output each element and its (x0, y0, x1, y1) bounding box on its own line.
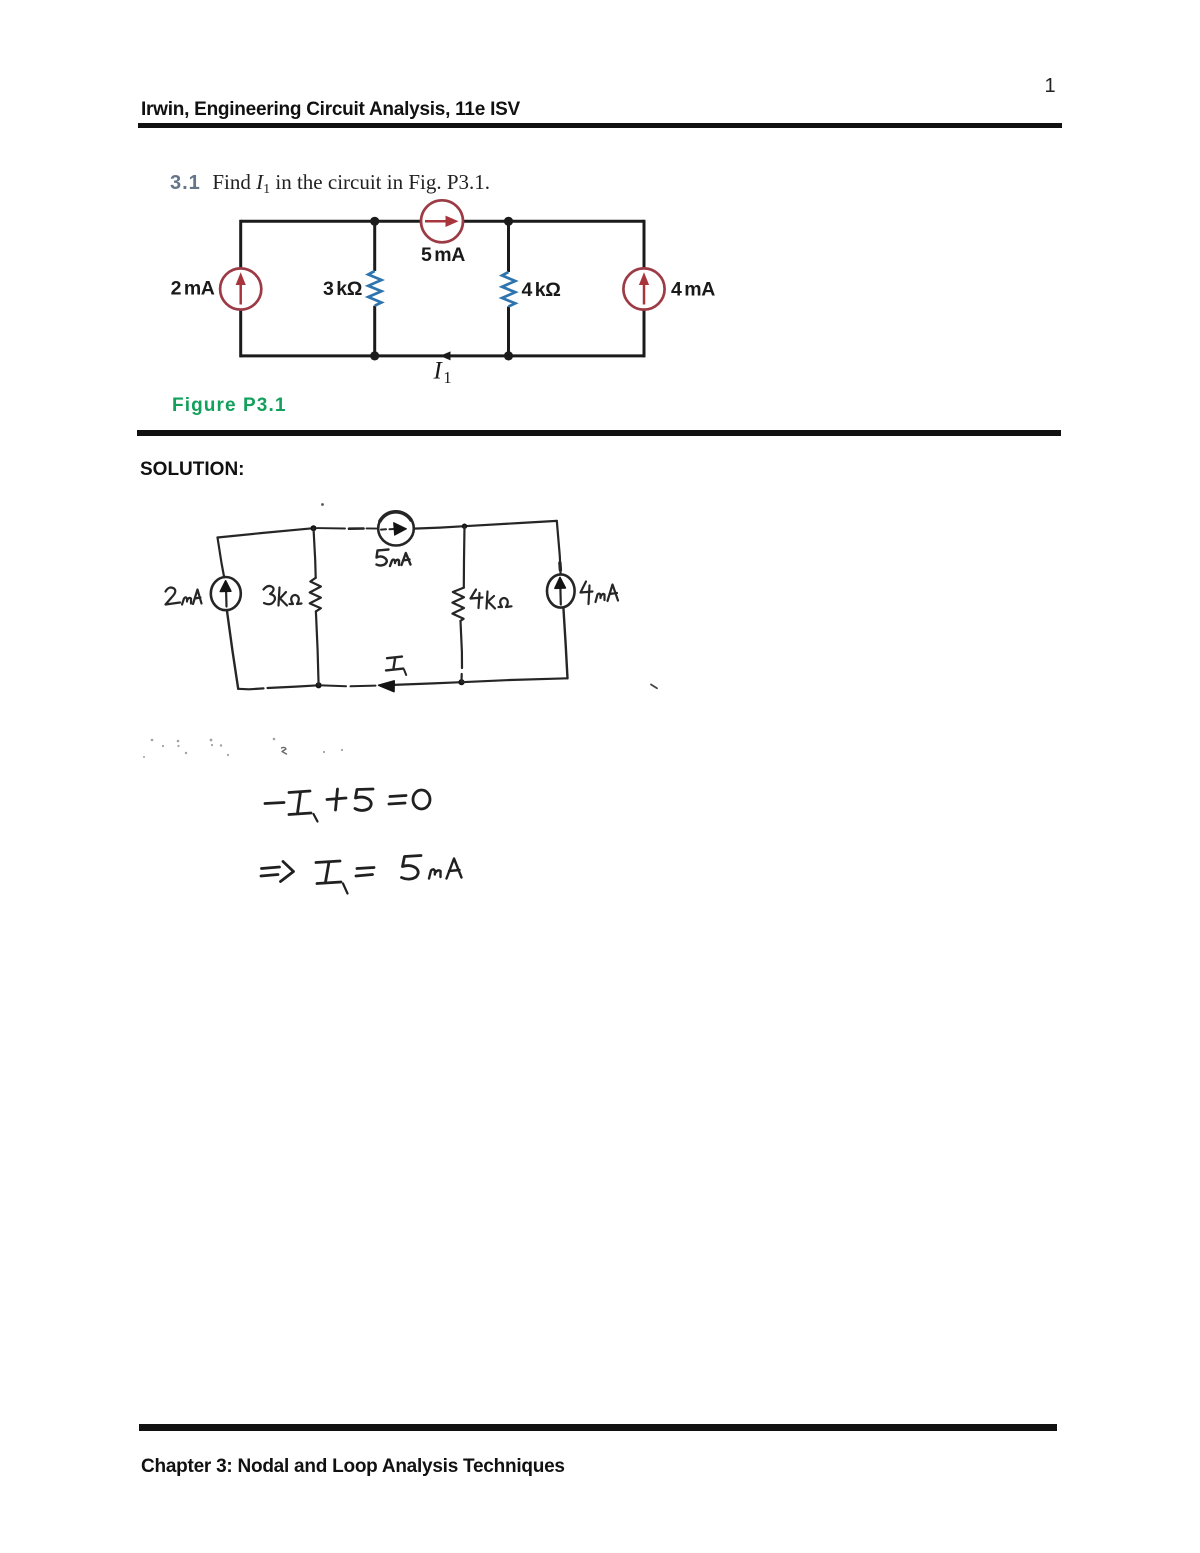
HANDWRITTEN EQUATIONS (140, 725, 680, 905)
node bottom of 3k (370, 351, 379, 360)
node hand top of 4k (462, 524, 467, 529)
wire left lower (239, 309, 242, 357)
wire top-right segment (463, 220, 644, 223)
current source hand 2mA (211, 577, 241, 610)
wire hand top-right segment (465, 521, 557, 526)
label hand 3kOhm (264, 586, 302, 606)
label hand 4mA (581, 582, 619, 605)
wire hand right lower (563, 608, 567, 679)
header rule (138, 123, 1062, 128)
pencil speckles (143, 738, 343, 758)
label hand 4kOhm (471, 590, 512, 609)
svg-text:4 mA: 4 mA (671, 279, 715, 301)
current arrow I1 on bottom wire (440, 351, 451, 360)
page number 1 (1040, 75, 1060, 98)
wire 4k branch lower (507, 307, 510, 356)
wire hand top right of source (414, 526, 465, 528)
label 3 kOhm (323, 278, 362, 300)
label hand 5mA (377, 550, 411, 567)
wire 3k branch upper (373, 221, 376, 271)
node bottom of 4k (504, 351, 513, 360)
wire hand 3k branch upper (314, 528, 316, 578)
handwritten equation -I1 + 5 = 0 (265, 789, 430, 822)
label hand I1 (386, 657, 406, 675)
resistor 3 kOhm (368, 271, 381, 306)
label 4 kOhm (522, 279, 561, 301)
wire hand left upper (218, 538, 225, 578)
wire hand left lower (227, 610, 238, 689)
footer rule (139, 1424, 1057, 1431)
current source hand 5mA (378, 512, 414, 546)
middle rule (137, 430, 1061, 436)
svg-text:I1: I1 (433, 358, 452, 388)
label 4 mA (671, 279, 715, 301)
node hand top of 3k (311, 525, 317, 531)
svg-text:3 kΩ: 3 kΩ (323, 278, 362, 300)
wire right lower (643, 309, 646, 357)
PRINTED CIRCUIT FIGURE (150, 190, 750, 390)
problem statement (170, 170, 490, 195)
wire hand right upper (557, 521, 561, 574)
resistor 4 kOhm (502, 272, 515, 307)
wire 3k branch lower (373, 306, 376, 356)
svg-text:2 mA: 2 mA (171, 278, 215, 300)
wire hand 4k branch upper (463, 526, 466, 587)
HAND-DRAWN CIRCUIT (140, 495, 680, 705)
wire hand bottom left segment (238, 685, 318, 689)
label 2 mA (171, 278, 215, 300)
stray mark above circuit (321, 503, 324, 506)
stray tick bottom right (651, 685, 657, 689)
header title (141, 99, 520, 121)
footer text (141, 1456, 565, 1478)
resistor hand 3kOhm (310, 578, 321, 612)
wire 4k branch upper (507, 221, 510, 272)
resistor hand 4kOhm (452, 588, 464, 621)
current source 4 mA (623, 268, 664, 309)
current arrow hand I1 (379, 681, 395, 692)
wire hand bottom middle with I1 arrow (322, 682, 462, 686)
wire hand top dashes to 5mA source (317, 527, 379, 530)
wire right upper (643, 220, 646, 269)
wire hand top-left segment (218, 528, 314, 537)
wire hand bottom right segment (462, 678, 568, 682)
wire bottom (241, 354, 644, 357)
wire hand 3k branch lower (316, 611, 319, 685)
node hand bottom of 4k (458, 679, 464, 685)
current source hand 4mA (547, 574, 575, 607)
handwritten equation => I1 = 5 mA (261, 856, 462, 894)
current source 2 mA (220, 268, 261, 309)
label hand 2mA (166, 588, 202, 605)
node hand bottom of 3k (316, 682, 322, 688)
wire left upper (239, 220, 242, 269)
svg-text:5 mA: 5 mA (421, 244, 465, 266)
wire top-left segment (241, 220, 421, 223)
label 5 mA (421, 244, 465, 266)
wire hand 4k branch lower (461, 621, 463, 682)
svg-text:4 kΩ: 4 kΩ (522, 279, 561, 301)
node top of 3k (370, 217, 379, 226)
node top of 4k (504, 217, 513, 226)
solution heading (140, 459, 245, 481)
label I1 (433, 358, 452, 388)
figure caption (172, 395, 287, 417)
current source 5 mA (421, 200, 463, 242)
